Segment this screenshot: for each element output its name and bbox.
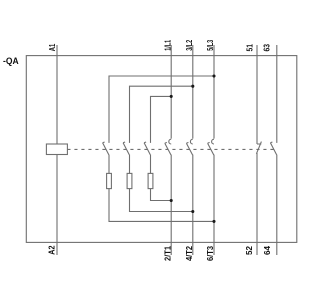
wire 52 terminal bbox=[256, 153, 258, 255]
wire precharge contact 1 to resistor R1 bbox=[108, 155, 110, 174]
coil -QA (A1-A2) bbox=[46, 144, 67, 155]
junction node T1 branch bbox=[170, 199, 173, 202]
precharge contact 3 (NO) bbox=[144, 142, 150, 155]
precharge contact 2 (NO) bbox=[123, 142, 129, 155]
contactor outline -QA bbox=[26, 56, 297, 243]
wire 1/L1 terminal bbox=[170, 45, 172, 139]
junction node L3 branch bbox=[212, 74, 215, 77]
resistor R3 bbox=[148, 173, 153, 188]
svg-text:A2: A2 bbox=[48, 245, 57, 255]
junction node T3 branch bbox=[212, 220, 215, 223]
mechanical linkage (dashed) bbox=[67, 148, 277, 150]
resistor R1 bbox=[107, 173, 112, 188]
main contact pole L2-T2 bbox=[186, 139, 192, 155]
wire 51 terminal bbox=[256, 45, 258, 144]
svg-text:52: 52 bbox=[245, 245, 254, 255]
wire 63 terminal bbox=[276, 45, 278, 143]
wire A1 terminal bbox=[56, 45, 58, 144]
wire 3/L2 terminal bbox=[192, 45, 194, 139]
junction node L2 branch bbox=[191, 85, 194, 88]
svg-text:4/T2: 4/T2 bbox=[185, 245, 194, 261]
svg-text:5/L3: 5/L3 bbox=[206, 39, 215, 50]
wire resistor R1 to 6/T3 bbox=[109, 189, 214, 222]
wire resistor R3 to 2/T1 bbox=[151, 189, 172, 201]
wire 6/T3 terminal bbox=[213, 155, 215, 255]
main contact pole L1-T1 bbox=[165, 139, 171, 155]
svg-text:3/L2: 3/L2 bbox=[185, 39, 194, 50]
svg-text:A1: A1 bbox=[48, 43, 57, 51]
svg-text:64: 64 bbox=[263, 245, 272, 255]
wire A2 terminal bbox=[56, 155, 58, 256]
junction node L1 branch bbox=[170, 95, 173, 98]
wire 5/L3 terminal bbox=[213, 45, 215, 139]
svg-text:63: 63 bbox=[263, 44, 272, 52]
wire branch 3/L2 to precharge contact 2 bbox=[130, 86, 193, 143]
wire branch 1/L1 to precharge contact 3 bbox=[151, 96, 172, 142]
auxiliary contact 63-64 (NO) bbox=[270, 142, 276, 155]
wire branch 5/L3 to precharge contact 1 bbox=[109, 76, 214, 143]
resistor R2 bbox=[127, 173, 132, 188]
wire resistor R2 to 4/T2 bbox=[130, 189, 193, 212]
junction node T2 branch bbox=[191, 210, 194, 213]
svg-text:51: 51 bbox=[246, 44, 255, 52]
wire precharge contact 3 to resistor R3 bbox=[150, 155, 152, 174]
wire 64 terminal bbox=[276, 155, 278, 255]
wire 4/T2 terminal bbox=[192, 155, 194, 255]
svg-text:1/L1: 1/L1 bbox=[163, 39, 172, 50]
svg-text:-QA: -QA bbox=[3, 56, 19, 66]
wire 2/T1 terminal bbox=[170, 155, 172, 255]
main contact pole L3-T3 bbox=[208, 139, 214, 155]
precharge contact 1 (NO) bbox=[103, 142, 109, 155]
auxiliary contact 51-52 (NC) bbox=[256, 142, 261, 154]
svg-text:6/T3: 6/T3 bbox=[206, 245, 215, 261]
svg-text:2/T1: 2/T1 bbox=[163, 245, 172, 261]
wire precharge contact 2 to resistor R2 bbox=[129, 155, 131, 174]
